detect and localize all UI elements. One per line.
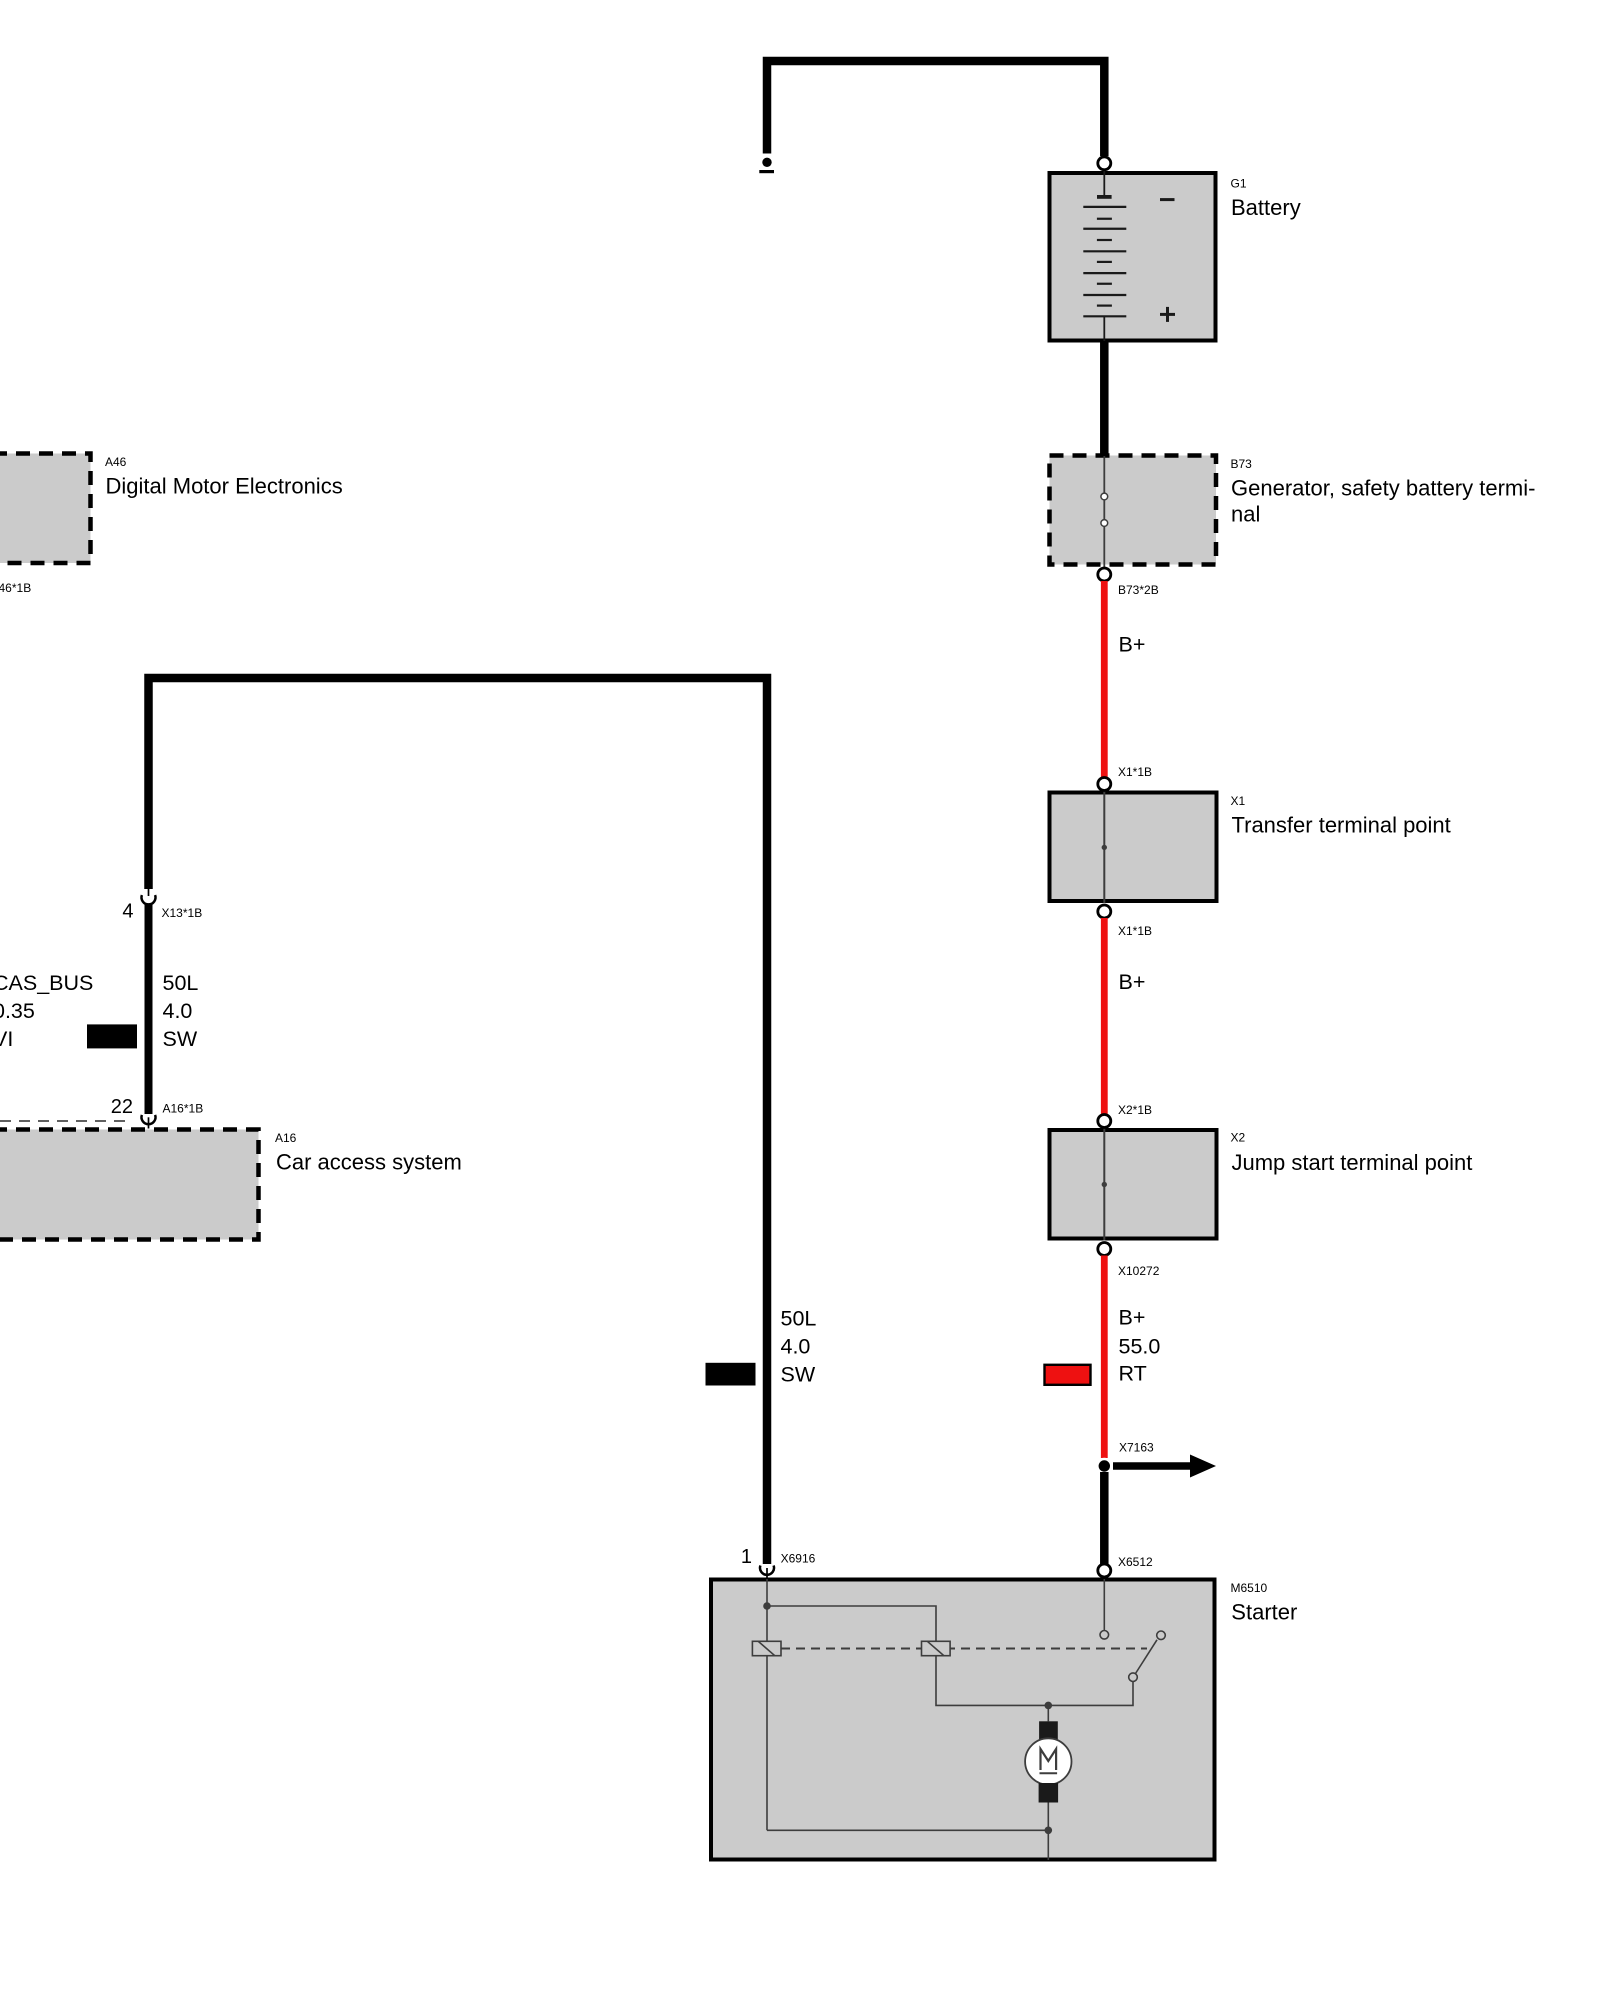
svg-text:X6916: X6916 — [781, 1552, 816, 1566]
svg-text:0.35: 0.35 — [0, 999, 35, 1023]
wire left vertical — [766, 1606, 768, 1830]
motor M glyph — [1041, 1749, 1057, 1770]
motor brush top — [1039, 1721, 1058, 1740]
svg-text:55.0: 55.0 — [1119, 1335, 1161, 1359]
relay coil 2 — [922, 1641, 951, 1655]
wire bottom run — [767, 1830, 1048, 1860]
svg-text:Generator, safety battery term: Generator, safety battery termi- — [1231, 476, 1535, 501]
svg-text:Transfer terminal point: Transfer terminal point — [1232, 813, 1451, 838]
X1 box — [1050, 793, 1217, 902]
motor M underline — [1040, 1772, 1058, 1774]
svg-text:X13*1B: X13*1B — [162, 906, 203, 920]
switch moving contact circle — [1129, 1673, 1138, 1682]
svg-text:4.0: 4.0 — [781, 1334, 811, 1358]
wire top run from splice to battery — [767, 61, 1104, 156]
battery minus sign — [1160, 198, 1175, 201]
terminal circle X2*1B — [1098, 1115, 1111, 1128]
svg-text:Car access system: Car access system — [276, 1150, 462, 1175]
svg-text:4.0: 4.0 — [163, 999, 193, 1023]
svg-text:B+: B+ — [1119, 970, 1146, 994]
svg-text:X6512: X6512 — [1118, 1555, 1153, 1569]
connector X13*1B (pin) — [148, 889, 150, 896]
junction dot (pin1 node) — [763, 1602, 771, 1610]
X2 box — [1050, 1130, 1217, 1239]
svg-text:X1: X1 — [1231, 794, 1246, 808]
wire motor top lead — [1047, 1705, 1049, 1721]
wire 50L SW (X13*1B to A16 pin 22) — [145, 904, 153, 1115]
red wire B+ (X1 to X2) — [1101, 918, 1108, 1115]
splice/ground terminal dot — [762, 158, 771, 167]
svg-text:22: 22 — [111, 1096, 133, 1118]
junction dot (motor bottom node) — [1045, 1827, 1053, 1835]
wire X6512 lead — [1103, 1579, 1105, 1631]
svg-text:B73: B73 — [1231, 457, 1253, 471]
svg-text:X2*1B: X2*1B — [1118, 1103, 1152, 1117]
svg-text:50L: 50L — [781, 1306, 817, 1330]
thin dashed boundary line — [0, 1120, 131, 1122]
wire battery to B73 — [1100, 343, 1109, 455]
svg-text:Digital Motor Electronics: Digital Motor Electronics — [106, 474, 343, 499]
B73 inner contact circles — [1101, 493, 1108, 500]
motor brush bottom — [1039, 1783, 1059, 1803]
connector X6916 (socket cup) — [760, 1566, 774, 1575]
wire to relay 2 — [767, 1606, 936, 1641]
black colour swatch SW (middle) — [706, 1363, 756, 1386]
svg-text:Jump start terminal point: Jump start terminal point — [1232, 1150, 1473, 1175]
svg-text:RT: RT — [1119, 1361, 1147, 1385]
terminal circle X1*1B top — [1098, 778, 1111, 791]
X1 inner dot — [1102, 845, 1107, 850]
connector X13*1B (socket cup) — [142, 895, 156, 904]
arrow to other circuit — [1113, 1462, 1191, 1469]
connector X6916 (pin into box) — [766, 1568, 768, 1579]
X2 inner dot — [1102, 1182, 1107, 1187]
terminal circle X10272 — [1098, 1243, 1111, 1256]
red wire B+ 55.0 RT — [1101, 1256, 1108, 1459]
X2 inner line — [1103, 1128, 1105, 1241]
junction dot (motor top node) — [1045, 1702, 1053, 1710]
svg-text:X1*1B: X1*1B — [1118, 765, 1152, 779]
connector A16*1B (socket cup) — [142, 1115, 156, 1124]
junction X7163 — [1096, 1458, 1113, 1475]
connector A16*1B (pin into box) — [148, 1117, 150, 1128]
svg-text:Starter: Starter — [1231, 1600, 1297, 1625]
red wire B+ (B73 to X1) — [1101, 581, 1108, 777]
X1 inner line — [1103, 791, 1105, 903]
svg-text:X7163: X7163 — [1119, 1441, 1154, 1455]
A46 box (dashed, cut at left edge) — [0, 454, 91, 564]
svg-text:X2: X2 — [1231, 1131, 1246, 1145]
svg-text:4: 4 — [122, 901, 133, 923]
relay coil 1 — [752, 1641, 781, 1655]
switch fixed contact circle — [1157, 1631, 1166, 1640]
starter internals — [767, 1579, 1157, 1860]
svg-text:VI: VI — [0, 1027, 13, 1051]
terminal circle B73*2B — [1098, 568, 1111, 581]
svg-text:B73*2B: B73*2B — [1118, 583, 1159, 597]
svg-text:A46*1B: A46*1B — [0, 581, 31, 595]
motor circle — [1025, 1738, 1071, 1784]
svg-text:CAS_BUS: CAS_BUS — [0, 971, 93, 995]
wire pin1 lead — [766, 1579, 768, 1606]
battery terminal circle — [1098, 157, 1111, 170]
svg-text:G1: G1 — [1231, 177, 1247, 191]
switch contact circle (under X6512) — [1100, 1631, 1109, 1640]
B73 inner line — [1103, 456, 1105, 568]
wire CAS trunk: X13*1B up, across, down to starter X6916 — [149, 678, 768, 1564]
black colour swatch VI — [87, 1024, 137, 1048]
svg-text:X10272: X10272 — [1118, 1264, 1160, 1278]
battery plus sign — [1160, 307, 1175, 322]
svg-text:B+: B+ — [1119, 633, 1146, 657]
battery symbol — [1083, 171, 1126, 341]
svg-text:SW: SW — [781, 1362, 816, 1386]
starter M6510 box — [711, 1580, 1215, 1860]
svg-text:nal: nal — [1231, 502, 1260, 527]
svg-text:A16*1B: A16*1B — [163, 1102, 204, 1116]
svg-text:SW: SW — [163, 1027, 198, 1051]
svg-text:A16: A16 — [275, 1131, 297, 1145]
svg-text:B+: B+ — [1119, 1306, 1146, 1330]
red colour swatch RT — [1045, 1365, 1091, 1385]
splice underline — [759, 170, 774, 173]
black wire X7163 to starter — [1100, 1472, 1109, 1564]
svg-text:X1*1B: X1*1B — [1118, 924, 1152, 938]
B73 box (dashed) — [1050, 456, 1217, 565]
wire motor bottom lead — [1047, 1803, 1049, 1831]
terminal circle X6512 — [1098, 1564, 1111, 1577]
terminal circle X1*1B bottom — [1098, 905, 1111, 918]
svg-text:1: 1 — [741, 1546, 752, 1568]
battery G1 box — [1050, 173, 1216, 341]
A16 box (dashed, cut at left edge) — [0, 1130, 259, 1240]
svg-text:A46: A46 — [105, 455, 127, 469]
svg-text:Battery: Battery — [1231, 195, 1301, 220]
wire relay2 to motor node — [936, 1656, 1133, 1706]
switch blade — [1136, 1640, 1158, 1674]
relay actuation dashed line — [781, 1648, 1147, 1650]
svg-text:50L: 50L — [163, 971, 199, 995]
svg-text:M6510: M6510 — [1231, 1581, 1268, 1595]
